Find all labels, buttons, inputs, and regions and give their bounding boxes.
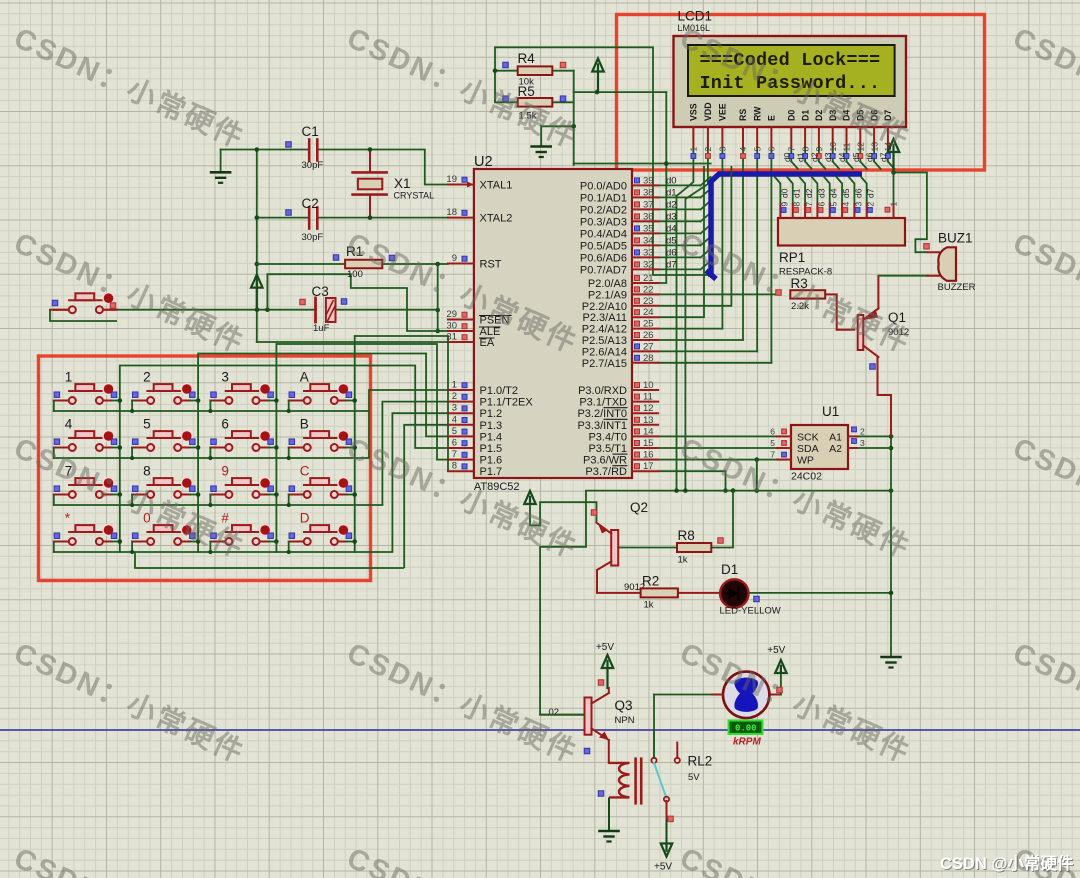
svg-text:RST: RST xyxy=(480,259,502,271)
svg-text:P1.1/T2EX: P1.1/T2EX xyxy=(480,397,534,409)
svg-text:28: 28 xyxy=(643,353,654,364)
svg-text:5: 5 xyxy=(143,417,151,432)
svg-text:d5: d5 xyxy=(666,235,677,246)
svg-text:38: 38 xyxy=(643,187,654,198)
svg-text:P2.4/A12: P2.4/A12 xyxy=(582,324,627,336)
svg-text:P2.3/A11: P2.3/A11 xyxy=(583,312,627,324)
svg-text:22: 22 xyxy=(643,284,654,295)
svg-text:P2.5/A13: P2.5/A13 xyxy=(582,335,627,347)
svg-text:XTAL2: XTAL2 xyxy=(480,213,513,225)
svg-text:100: 100 xyxy=(347,269,363,280)
svg-text:R2: R2 xyxy=(642,574,659,589)
svg-text:10: 10 xyxy=(643,380,654,391)
svg-text:2: 2 xyxy=(860,426,865,436)
svg-text:+5V: +5V xyxy=(767,645,785,656)
svg-text:12: 12 xyxy=(643,403,654,414)
svg-text:RW: RW xyxy=(752,106,762,121)
svg-text:1: 1 xyxy=(889,202,899,207)
svg-text:d3: d3 xyxy=(816,188,826,198)
svg-text:P1.0/T2: P1.0/T2 xyxy=(480,385,519,397)
svg-text:U1: U1 xyxy=(822,404,839,419)
svg-text:1k: 1k xyxy=(678,555,688,566)
svg-text:Q2: Q2 xyxy=(630,500,648,515)
svg-text:P3.6/WR: P3.6/WR xyxy=(583,455,627,467)
svg-text:P0.3/AD3: P0.3/AD3 xyxy=(580,216,627,228)
svg-text:P3.1/TXD: P3.1/TXD xyxy=(579,397,627,409)
svg-text:P1.2: P1.2 xyxy=(480,408,503,420)
svg-text:9: 9 xyxy=(779,202,789,207)
svg-text:6: 6 xyxy=(221,417,229,432)
svg-text:U2: U2 xyxy=(474,154,493,170)
svg-text:d1: d1 xyxy=(792,188,802,198)
svg-text:P1.6: P1.6 xyxy=(480,455,503,467)
svg-text:d5: d5 xyxy=(841,188,851,198)
svg-text:1uF: 1uF xyxy=(313,323,330,334)
svg-text:P3.4/T0: P3.4/T0 xyxy=(588,431,627,443)
svg-text:P0.5/AD5: P0.5/AD5 xyxy=(580,240,627,252)
svg-text:4: 4 xyxy=(452,414,457,425)
svg-text:30: 30 xyxy=(446,321,457,332)
svg-text:P1.4: P1.4 xyxy=(480,431,503,443)
svg-text:C: C xyxy=(300,464,310,479)
svg-text:WP: WP xyxy=(797,455,814,467)
svg-text:13: 13 xyxy=(643,415,654,426)
svg-text:2: 2 xyxy=(143,370,151,385)
svg-text:8: 8 xyxy=(792,202,802,207)
svg-text:+5V: +5V xyxy=(596,642,614,653)
svg-text:X1: X1 xyxy=(394,176,411,191)
svg-text:d6: d6 xyxy=(853,188,863,198)
svg-text:VDD: VDD xyxy=(703,102,713,121)
svg-text:d3: d3 xyxy=(823,152,833,162)
svg-text:15: 15 xyxy=(643,438,654,449)
svg-text:d6: d6 xyxy=(666,247,677,258)
svg-text:RP1: RP1 xyxy=(779,250,805,265)
svg-text:SCK: SCK xyxy=(797,432,819,444)
svg-text:XTAL1: XTAL1 xyxy=(480,180,513,192)
svg-text:30pF: 30pF xyxy=(302,160,324,171)
svg-text:P1.7: P1.7 xyxy=(480,466,503,478)
svg-text:B: B xyxy=(300,417,309,432)
svg-text:VEE: VEE xyxy=(718,103,728,121)
svg-text:8: 8 xyxy=(800,147,810,152)
svg-text:4: 4 xyxy=(841,202,851,207)
svg-text:7: 7 xyxy=(787,147,797,152)
svg-text:LED-YELLOW: LED-YELLOW xyxy=(720,606,781,617)
svg-text:5: 5 xyxy=(770,438,775,448)
svg-text:E: E xyxy=(767,115,777,121)
svg-text:P0.1/AD1: P0.1/AD1 xyxy=(580,192,627,204)
svg-text:7: 7 xyxy=(770,450,775,460)
svg-text:P2.6/A14: P2.6/A14 xyxy=(582,346,627,358)
svg-text:P3.3/INT1: P3.3/INT1 xyxy=(577,420,627,432)
svg-text:1: 1 xyxy=(65,370,73,385)
svg-text:P2.1/A9: P2.1/A9 xyxy=(588,289,627,301)
svg-text:3: 3 xyxy=(853,202,863,207)
svg-text:36: 36 xyxy=(643,211,654,222)
svg-text:39: 39 xyxy=(643,175,654,186)
svg-text:CRYSTAL: CRYSTAL xyxy=(394,191,435,201)
svg-text:P2.0/A8: P2.0/A8 xyxy=(588,278,627,290)
svg-text:d0: d0 xyxy=(666,175,677,186)
svg-text:24: 24 xyxy=(643,307,654,318)
svg-text:25: 25 xyxy=(643,319,654,330)
svg-text:11: 11 xyxy=(842,142,852,151)
svg-text:d7: d7 xyxy=(666,259,677,270)
svg-text:P3.5/T1: P3.5/T1 xyxy=(588,443,627,455)
svg-text:P2.7/A15: P2.7/A15 xyxy=(582,358,627,370)
svg-text:5: 5 xyxy=(752,147,762,152)
svg-text:+5V: +5V xyxy=(654,862,672,873)
svg-text:R8: R8 xyxy=(678,528,695,543)
svg-text:7: 7 xyxy=(452,449,457,460)
svg-text:P0.7/AD7: P0.7/AD7 xyxy=(580,264,627,276)
svg-text:26: 26 xyxy=(643,330,654,341)
svg-text:P0.2/AD2: P0.2/AD2 xyxy=(580,204,627,216)
svg-text:5: 5 xyxy=(829,202,839,207)
svg-text:32: 32 xyxy=(643,259,654,270)
svg-text:17: 17 xyxy=(643,461,654,472)
svg-text:33: 33 xyxy=(643,247,654,258)
svg-text:d7: d7 xyxy=(878,152,888,162)
svg-text:9: 9 xyxy=(221,464,229,479)
svg-text:C1: C1 xyxy=(302,124,319,139)
svg-text:LCD1: LCD1 xyxy=(678,9,713,24)
svg-text:P3.0/RXD: P3.0/RXD xyxy=(578,385,627,397)
svg-text:27: 27 xyxy=(643,341,654,352)
svg-text:*: * xyxy=(65,511,71,526)
svg-text:C2: C2 xyxy=(302,196,319,211)
svg-text:C3: C3 xyxy=(312,284,329,299)
svg-text:3: 3 xyxy=(452,403,457,414)
svg-text:9: 9 xyxy=(814,147,824,152)
svg-text:2: 2 xyxy=(452,391,457,402)
svg-text:1: 1 xyxy=(689,147,699,152)
svg-text:A2: A2 xyxy=(829,443,842,455)
svg-text:21: 21 xyxy=(643,273,654,284)
svg-text:P3.2/INT0: P3.2/INT0 xyxy=(577,408,627,420)
svg-text:37: 37 xyxy=(643,199,654,210)
svg-text:2: 2 xyxy=(703,147,713,152)
svg-text:6: 6 xyxy=(767,147,777,152)
svg-text:9: 9 xyxy=(452,253,457,264)
svg-text:VSS: VSS xyxy=(689,103,699,121)
svg-text:d1: d1 xyxy=(666,187,677,198)
svg-text:1k: 1k xyxy=(644,600,654,611)
svg-text:35: 35 xyxy=(643,223,654,234)
svg-text:3: 3 xyxy=(860,438,865,448)
svg-text:d3: d3 xyxy=(666,211,677,222)
svg-text:6: 6 xyxy=(816,202,826,207)
svg-text:19: 19 xyxy=(446,174,457,185)
svg-text:14: 14 xyxy=(643,426,654,437)
svg-text:P0.0/AD0: P0.0/AD0 xyxy=(580,180,627,192)
svg-text:P1.3: P1.3 xyxy=(480,420,503,432)
svg-text:SDA: SDA xyxy=(797,443,819,455)
svg-text:16: 16 xyxy=(643,450,654,461)
svg-text:12: 12 xyxy=(856,142,866,152)
svg-text:P1.5: P1.5 xyxy=(480,443,503,455)
svg-text:d6: d6 xyxy=(865,152,875,162)
svg-text:BUZ1: BUZ1 xyxy=(938,231,973,246)
svg-text:A1: A1 xyxy=(829,432,842,444)
svg-text:0.00: 0.00 xyxy=(735,724,757,734)
svg-text:BUZZER: BUZZER xyxy=(938,282,976,293)
svg-text:d4: d4 xyxy=(829,188,839,198)
svg-text:R4: R4 xyxy=(518,51,536,66)
svg-text:kRPM: kRPM xyxy=(733,737,761,748)
svg-text:P3.7/RD: P3.7/RD xyxy=(585,466,627,478)
svg-text:d4: d4 xyxy=(666,223,677,234)
svg-text:29: 29 xyxy=(446,309,457,320)
svg-text:10: 10 xyxy=(828,142,838,152)
svg-text:D: D xyxy=(300,511,310,526)
svg-text:34: 34 xyxy=(643,235,654,246)
svg-text:P2.2/A10: P2.2/A10 xyxy=(582,301,627,313)
svg-text:d2: d2 xyxy=(809,152,819,162)
svg-text:1: 1 xyxy=(452,380,457,391)
svg-text:18: 18 xyxy=(446,207,457,218)
svg-text:P0.6/AD6: P0.6/AD6 xyxy=(580,252,627,264)
svg-text:4: 4 xyxy=(65,417,73,432)
svg-text:7: 7 xyxy=(804,202,814,207)
svg-text:CSDN @小常硬件: CSDN @小常硬件 xyxy=(940,853,1074,873)
svg-text:EA: EA xyxy=(480,337,495,349)
svg-text:6: 6 xyxy=(770,426,775,436)
svg-text:8: 8 xyxy=(452,461,457,472)
svg-text:30pF: 30pF xyxy=(302,232,324,243)
svg-text:RL2: RL2 xyxy=(688,754,713,769)
svg-text:31: 31 xyxy=(446,332,457,343)
svg-text:d0: d0 xyxy=(782,152,792,162)
svg-text:d5: d5 xyxy=(851,152,861,162)
svg-text:D1: D1 xyxy=(721,562,738,577)
svg-text:d2: d2 xyxy=(666,199,677,210)
svg-text:5V: 5V xyxy=(688,772,700,783)
svg-text:Q3: Q3 xyxy=(615,698,633,713)
svg-text:23: 23 xyxy=(643,296,654,307)
svg-text:4: 4 xyxy=(738,147,748,152)
svg-text:6: 6 xyxy=(452,438,457,449)
svg-text:NPN: NPN xyxy=(615,715,635,726)
svg-text:8: 8 xyxy=(143,464,151,479)
svg-text:d7: d7 xyxy=(866,188,876,198)
svg-text:5: 5 xyxy=(452,426,457,437)
svg-text:A: A xyxy=(300,370,309,385)
svg-text:3: 3 xyxy=(718,147,728,152)
svg-text:2: 2 xyxy=(866,202,876,207)
svg-text:3: 3 xyxy=(221,370,229,385)
svg-text:P0.4/AD4: P0.4/AD4 xyxy=(580,228,627,240)
svg-text:d1: d1 xyxy=(796,152,806,162)
svg-text:11: 11 xyxy=(643,392,653,403)
svg-text:02: 02 xyxy=(549,707,560,718)
svg-text:d2: d2 xyxy=(804,188,814,198)
svg-text:d4: d4 xyxy=(837,152,847,162)
svg-text:d0: d0 xyxy=(779,188,789,198)
svg-text:D0: D0 xyxy=(787,110,797,121)
svg-text:RS: RS xyxy=(738,109,748,121)
